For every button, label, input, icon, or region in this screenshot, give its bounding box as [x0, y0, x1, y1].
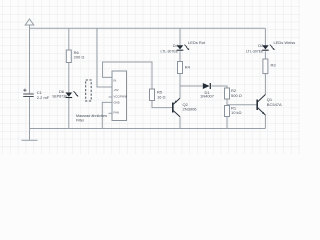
- svg-text:LTL-307EE: LTL-307EE: [161, 49, 179, 53]
- svg-text:1N4007: 1N4007: [200, 94, 215, 99]
- svg-text:D6: D6: [59, 89, 65, 94]
- svg-text:LEDs Weiss: LEDs Weiss: [274, 40, 296, 45]
- svg-text:500 Ω: 500 Ω: [231, 93, 242, 98]
- svg-text:Filter: Filter: [76, 118, 85, 122]
- svg-text:BC547A: BC547A: [267, 102, 282, 107]
- svg-text:R3: R3: [271, 62, 277, 67]
- svg-text:IN: IN: [114, 78, 117, 82]
- svg-text:10 kΩ: 10 kΩ: [231, 110, 242, 115]
- svg-text:FAN: FAN: [114, 111, 119, 115]
- svg-text:+5V: +5V: [114, 88, 119, 92]
- svg-text:LTL-307EE: LTL-307EE: [246, 49, 264, 53]
- svg-text:2.2 mF: 2.2 mF: [37, 95, 50, 100]
- svg-text:D2: D2: [258, 43, 264, 48]
- svg-text:LEDs Rot: LEDs Rot: [188, 40, 206, 45]
- svg-text:Mausrad ähnliches: Mausrad ähnliches: [76, 114, 107, 118]
- svg-text:R4: R4: [185, 64, 191, 69]
- svg-text:200 Ω: 200 Ω: [74, 55, 85, 60]
- svg-text:GND: GND: [114, 101, 120, 105]
- svg-text:D4: D4: [173, 43, 179, 48]
- svg-text:2N3906: 2N3906: [183, 107, 198, 112]
- svg-text:VCC/PWM: VCC/PWM: [114, 94, 128, 98]
- svg-text:SEP8736: SEP8736: [52, 94, 67, 98]
- svg-text:16 Ω: 16 Ω: [157, 94, 166, 99]
